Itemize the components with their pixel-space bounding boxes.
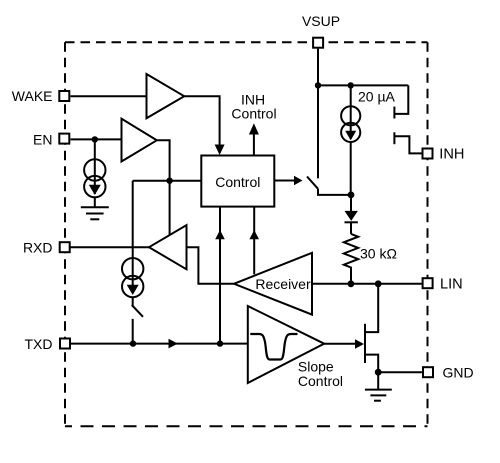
- svg-text:WAKE: WAKE: [12, 88, 53, 104]
- svg-text:INH: INH: [439, 146, 464, 162]
- svg-text:Control: Control: [231, 106, 276, 122]
- svg-text:Control: Control: [298, 373, 343, 389]
- svg-text:Receiver: Receiver: [255, 276, 311, 292]
- svg-text:20 µA: 20 µA: [358, 89, 396, 105]
- svg-text:TXD: TXD: [25, 336, 53, 352]
- svg-text:VSUP: VSUP: [302, 13, 340, 29]
- svg-text:RXD: RXD: [23, 239, 53, 255]
- svg-text:EN: EN: [33, 132, 52, 148]
- svg-text:30 kΩ: 30 kΩ: [360, 246, 397, 262]
- svg-text:Control: Control: [215, 174, 260, 190]
- svg-text:LIN: LIN: [440, 277, 463, 293]
- svg-text:GND: GND: [443, 364, 474, 380]
